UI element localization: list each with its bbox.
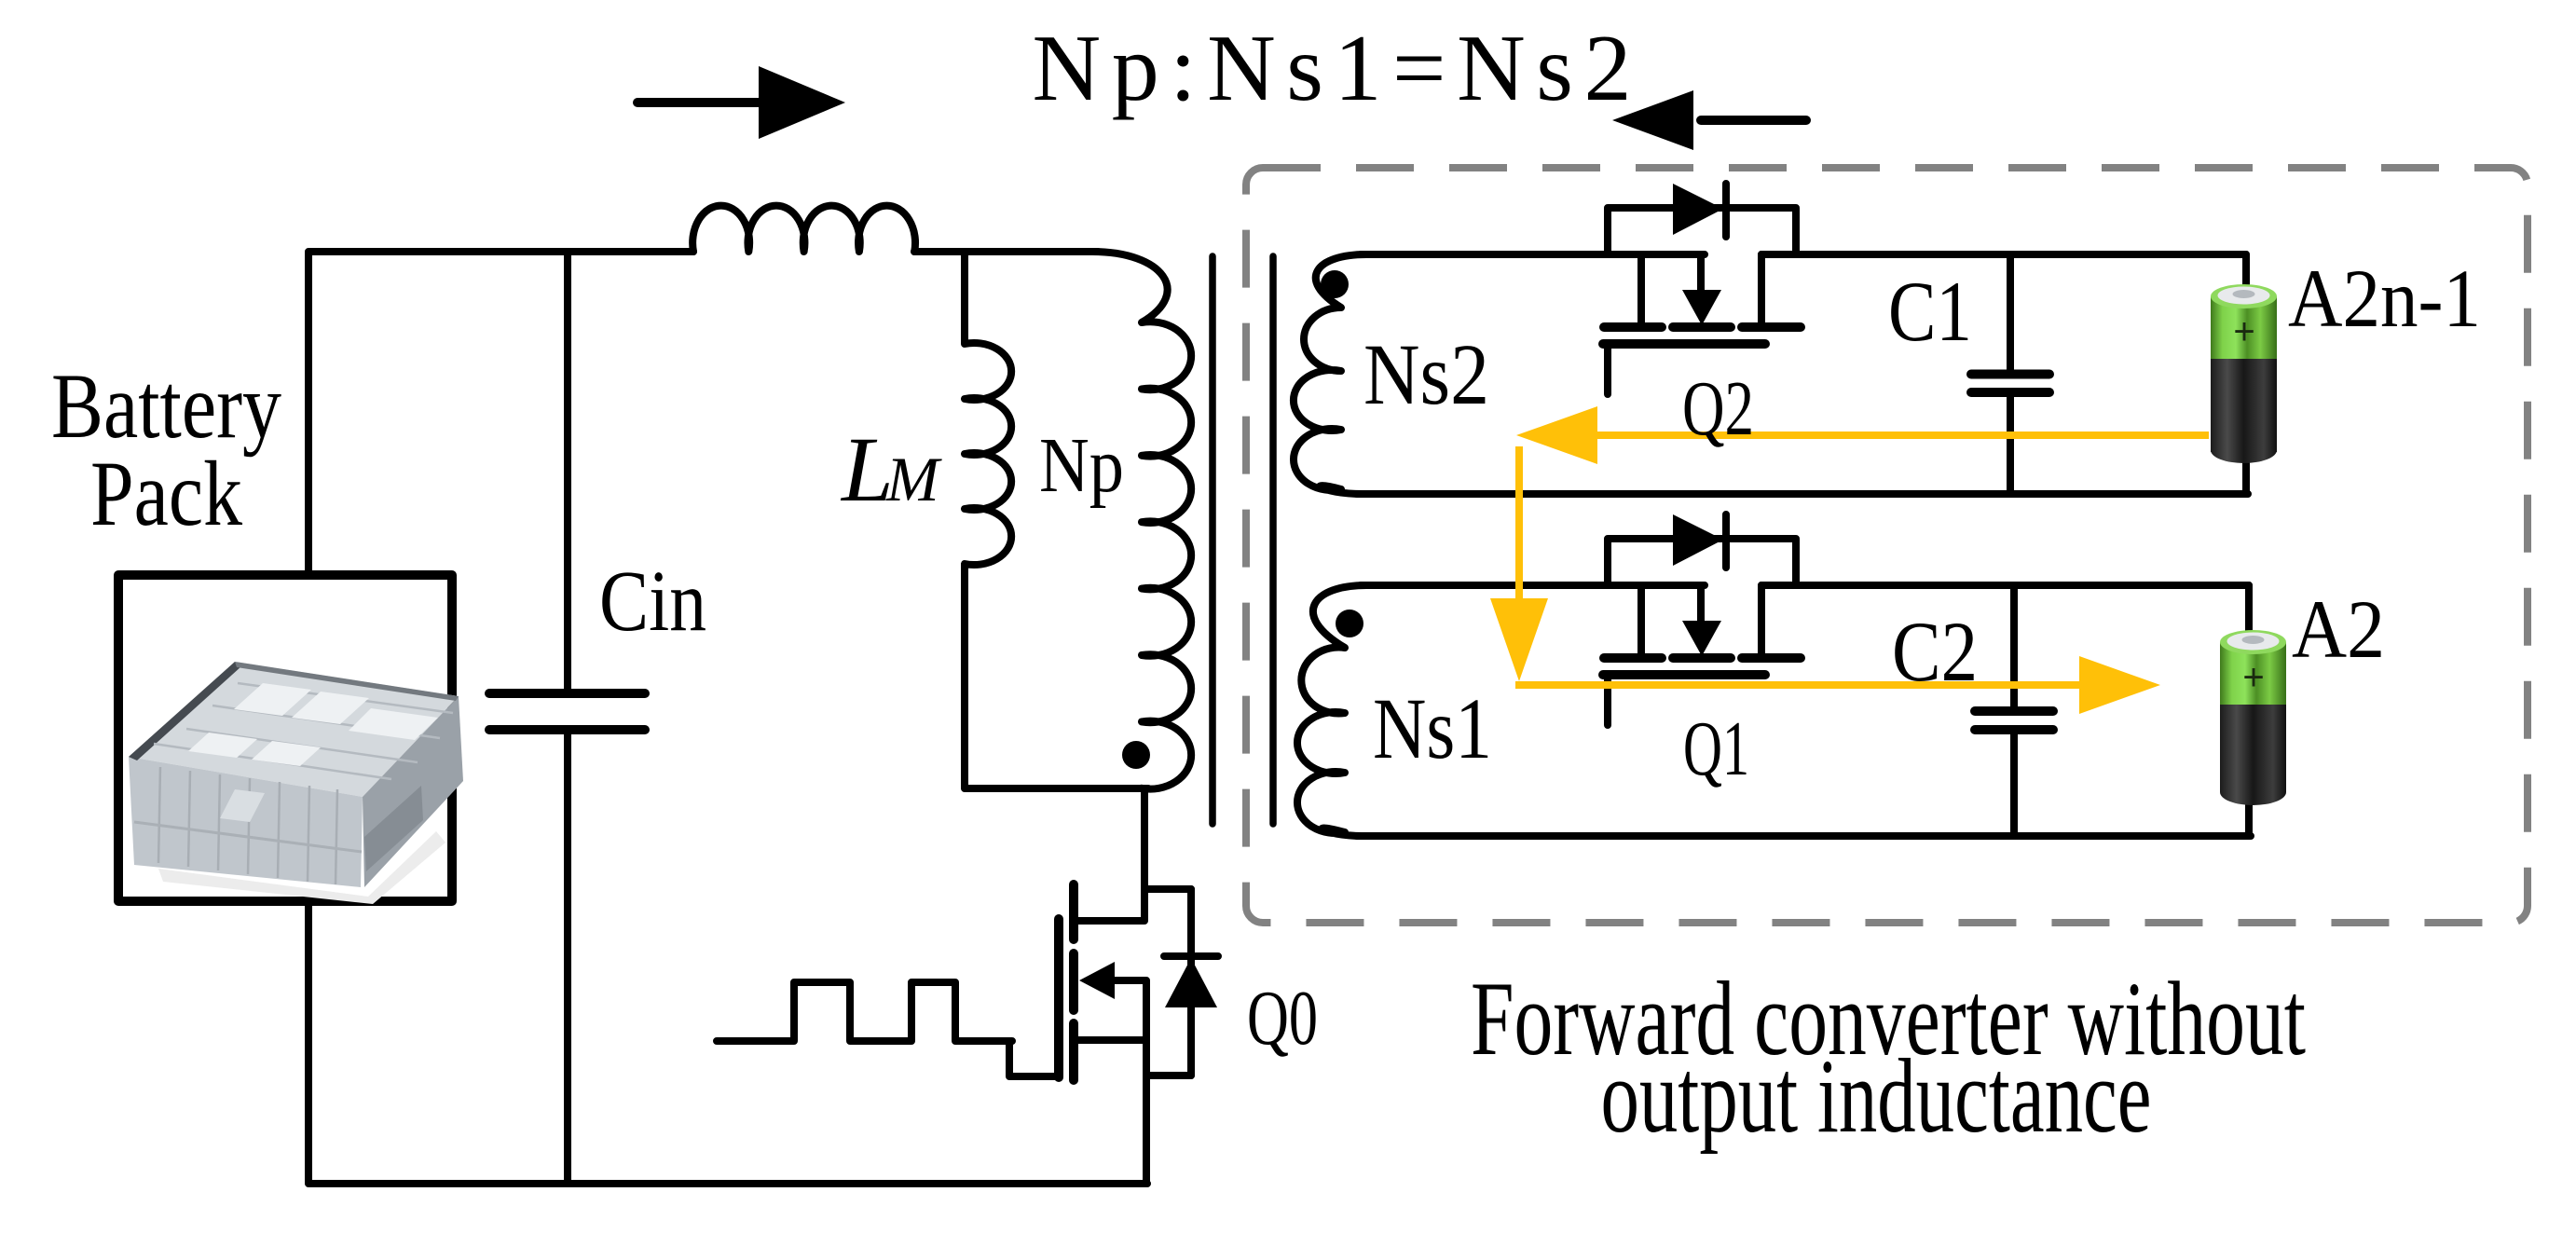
svg-text:+: + xyxy=(2242,657,2264,698)
svg-text:A2n-1: A2n-1 xyxy=(2288,253,2481,345)
svg-text:Cin: Cin xyxy=(599,554,706,650)
svg-text:Q2: Q2 xyxy=(1682,365,1754,452)
svg-text:Q0: Q0 xyxy=(1247,975,1318,1062)
svg-text:Q1: Q1 xyxy=(1683,706,1749,792)
svg-text:Ns2: Ns2 xyxy=(1363,327,1489,423)
svg-text:C1: C1 xyxy=(1888,264,1972,359)
svg-text:L: L xyxy=(840,418,894,521)
svg-text:Pack: Pack xyxy=(90,442,242,545)
svg-text:output inductance: output inductance xyxy=(1601,1038,2152,1155)
svg-text:Ns1: Ns1 xyxy=(1373,681,1492,777)
svg-text:Np: Np xyxy=(1039,422,1124,509)
svg-text:Np:Ns1=Ns2: Np:Ns1=Ns2 xyxy=(1033,16,1632,121)
svg-text:C2: C2 xyxy=(1892,604,1978,699)
svg-text:+: + xyxy=(2233,311,2254,352)
svg-text:M: M xyxy=(885,444,942,514)
svg-text:A2: A2 xyxy=(2292,584,2385,676)
